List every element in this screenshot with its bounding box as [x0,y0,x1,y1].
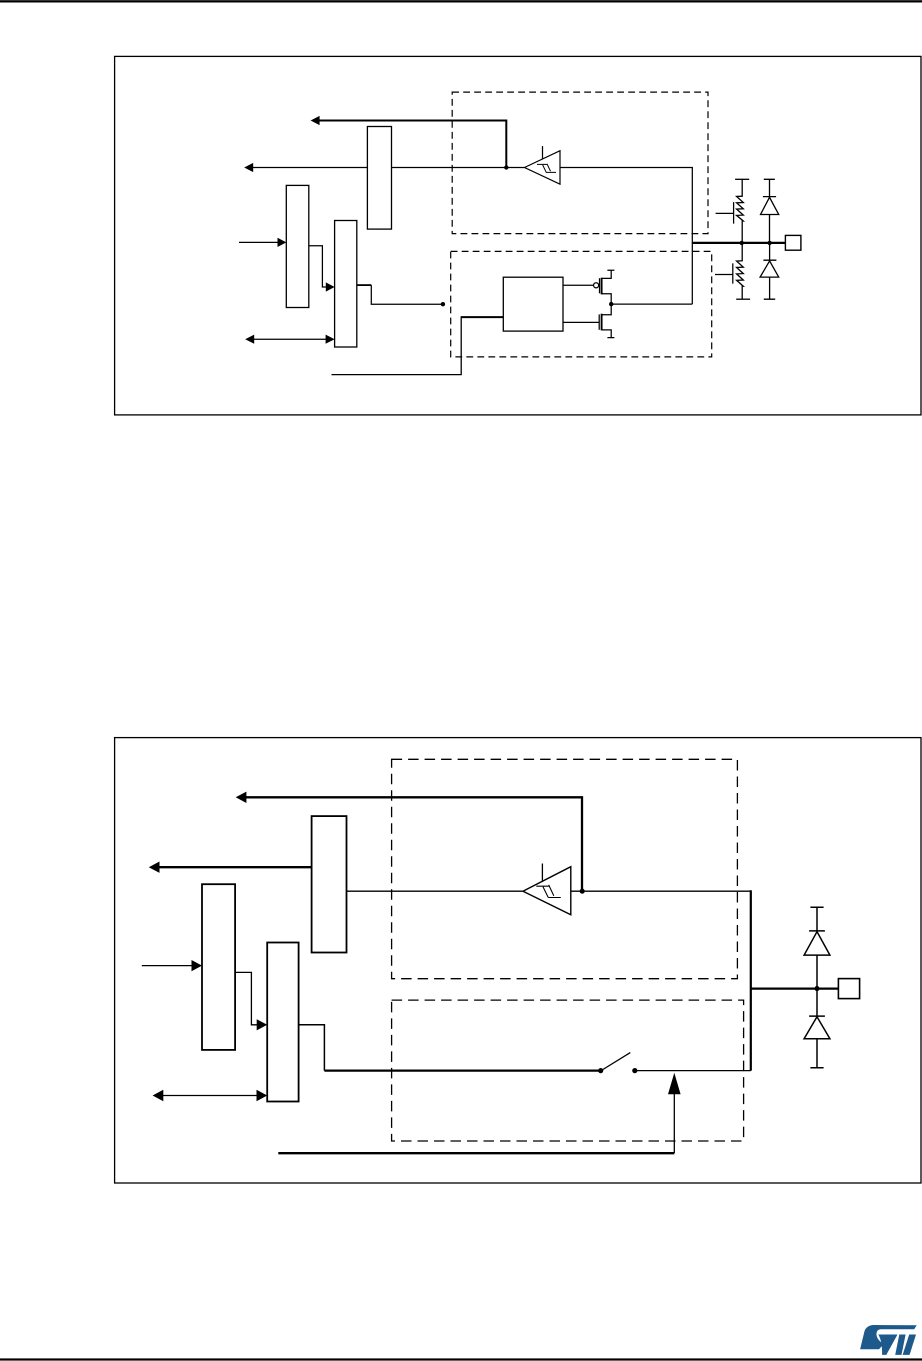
register DR (box 1) [367,127,391,230]
wire: thick feedback from pad net to arrow left (fig2) [246,797,583,889]
wire: DR register output (thick) to arrow left [319,121,507,167]
node: switch right contact dot [632,1068,637,1073]
register OR (fig2 box 3) [267,943,298,1102]
node: end dot left of output stage [441,302,445,306]
register OR (box 3) [335,221,357,348]
dashed box: output stage [451,251,712,357]
figure 2 frame [115,738,921,1183]
page footer rule [0,1358,922,1360]
weak pull-up resistor R1 (top) [735,178,749,180]
schmitt enable tick (fig2) [541,864,543,882]
schmitt trigger U1 [525,151,561,185]
output stage buffer box [503,277,563,331]
wire: step DDR to OR register (fig2) [235,972,259,1024]
node: junction of feedback and schmitt output [504,165,508,169]
switch blade SW1 [603,1053,630,1070]
node: diode junction on pad line [767,241,771,245]
wire: output stage drains to pad column [611,303,692,305]
node: drain junction dot [609,302,613,306]
wire: OR register out, step down to node [357,284,371,286]
wire: bottom control line (fig2) [278,1152,674,1154]
dashed box: input stage [452,92,708,234]
logo T stem slash 2 [903,1335,916,1355]
figure 1 frame [115,56,921,415]
transistor Q2 N-MOS [563,321,599,323]
register DR (fig2 box 1) [312,816,347,952]
wire: control line up-arrow to switch [673,1094,675,1153]
wire: pad line (thick) [692,242,785,244]
wire: schmitt output to pad column (fig2) [571,890,751,892]
node: feedback junction dot (fig2) [580,889,585,894]
pad square (fig2) [838,979,859,999]
wire: arrow into DDR register [239,241,278,243]
wire: step from DDR to OR register [309,246,326,287]
wire: pad line (fig2) [751,987,839,989]
wire: arrow into DDR register (fig2) [142,965,194,967]
protection diode D2 to VSS (fig2) [809,989,825,1017]
arrowhead left on data line [244,163,253,172]
schmitt trigger U1 (fig2) [523,867,571,915]
protection diode D1 to VDD (fig2) [809,907,825,931]
logo S middle wedge [878,1335,897,1355]
wire: DR register to schmitt input (fig2) [347,890,524,892]
arrowhead left on DR line [311,116,320,125]
dashed box: input stage (fig2) [392,759,738,978]
wire: OR register step down to switch line (fig2) [299,1025,325,1071]
wire: thick arrow from DR register left (fig2) [159,866,312,868]
register DDR (fig2 box 2) [202,884,235,1050]
page header rule [0,0,922,2]
arrowhead left top (fig2) [236,792,247,803]
node: switch left contact dot [598,1068,603,1073]
pull-up gate switch (top) [716,202,734,224]
node: diode junction on pad line (fig2) [814,986,819,991]
schmitt enable tick [542,146,544,159]
schmitt hysteresis glyph (fig2) [536,885,561,898]
wire: switch line thick left part (fig2) [324,1069,600,1071]
wire: bidirectional data bus arrow (fig2) [163,1095,259,1097]
wire: schmitt input from pad column [560,168,692,305]
weak pull-down resistor R2 (bottom) [737,243,744,299]
dashed box: output stage (fig2) [392,1000,744,1141]
ST logo [860,1325,917,1355]
wire: data bus line through DR register to Schmitt output [253,167,525,169]
wire: pad column vertical (fig2) [750,890,752,1070]
pull-down gate switch (bottom) [715,263,733,283]
wire: control line from bottom into output stage [332,316,462,374]
protection diode D2 to VSS [763,243,776,260]
wire: thick line into output stage box [461,316,503,318]
schmitt hysteresis glyph [537,164,556,173]
protection diode D1 to VDD [763,179,776,196]
pad square [785,235,801,250]
node: pull-up junction on pad line [740,241,744,245]
wire: bidirectional data bus arrow [254,338,327,340]
register DDR (box 2) [286,185,309,307]
wire: switch right to pad column [635,1070,751,1072]
transistor Q1 P-MOS [563,284,593,286]
logo T stem slash 1 [895,1335,905,1355]
logo swoosh S body [860,1325,917,1349]
